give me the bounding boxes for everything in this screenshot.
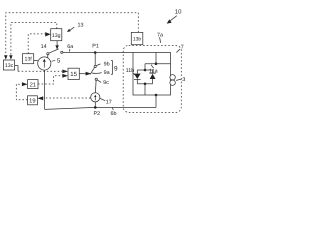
svg-text:14: 14 [41, 44, 47, 50]
svg-text:9b: 9b [104, 61, 110, 67]
svg-text:10: 10 [175, 9, 182, 16]
svg-text:7a: 7a [157, 32, 163, 38]
svg-text:P1: P1 [92, 43, 99, 49]
svg-text:9: 9 [114, 66, 118, 73]
svg-text:13: 13 [78, 23, 84, 29]
svg-text:17: 17 [106, 99, 112, 105]
svg-text:13g: 13g [52, 33, 61, 39]
svg-text:13c: 13c [5, 63, 14, 69]
svg-text:6a: 6a [67, 44, 73, 50]
svg-text:11a: 11a [149, 68, 158, 74]
svg-text:13b: 13b [133, 37, 142, 43]
svg-text:P2: P2 [94, 111, 101, 117]
svg-text:7: 7 [181, 45, 184, 51]
svg-text:3: 3 [182, 77, 185, 83]
svg-text:6b: 6b [111, 111, 117, 117]
svg-text:15: 15 [70, 71, 77, 78]
svg-text:9c: 9c [103, 80, 109, 86]
svg-text:9a: 9a [104, 70, 110, 76]
svg-text:21: 21 [30, 81, 36, 88]
svg-text:11b: 11b [126, 68, 135, 74]
svg-text:5: 5 [57, 57, 61, 64]
svg-text:13f: 13f [24, 57, 32, 63]
svg-text:19: 19 [29, 98, 35, 105]
